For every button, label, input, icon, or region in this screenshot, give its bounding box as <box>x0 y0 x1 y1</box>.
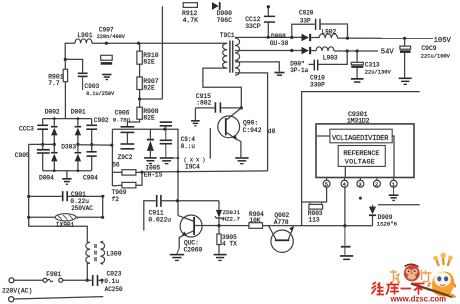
pin 2 of IC U901 <box>376 178 378 181</box>
svg-text:0.78n: 0.78n <box>113 116 130 123</box>
svg-text:GU-38: GU-38 <box>270 40 289 47</box>
capacitor C904 symbol <box>87 151 97 153</box>
capacitor pin4 bypass <box>344 226 346 246</box>
capacitor C914 lead <box>209 128 211 159</box>
node junction bridge top-left <box>53 117 56 120</box>
node junction Q901 collector <box>240 106 243 109</box>
svg-text:C901: C901 <box>71 191 86 198</box>
svg-text:54V: 54V <box>381 49 395 57</box>
ground below C907 <box>102 74 111 76</box>
svg-text:www.dzsc.com: www.dzsc.com <box>390 295 447 304</box>
capacitor C911 <box>144 201 156 231</box>
svg-text:0.1u/250V: 0.1u/250V <box>86 91 115 97</box>
svg-text:EH-1S: EH-1S <box>144 172 163 179</box>
wire startup vertical R912 feed <box>161 6 163 99</box>
resistor R909 <box>112 184 122 187</box>
node junction R902 right <box>140 171 143 174</box>
transformer T901 secondary winding <box>235 38 240 75</box>
svg-text:C313: C313 <box>365 61 380 68</box>
ground bridge center <box>66 171 68 178</box>
svg-text:22u/130V: 22u/130V <box>365 70 392 76</box>
node junction R908 top <box>138 97 141 100</box>
svg-text:33CP: 33CP <box>245 23 261 30</box>
svg-text:0.022u: 0.022u <box>148 216 171 223</box>
wire secondary tap2 <box>235 50 240 52</box>
IC voltage divider box <box>330 129 392 143</box>
svg-text:0.22u: 0.22u <box>70 198 89 205</box>
svg-text:Z9C2: Z9C2 <box>118 154 133 161</box>
node junction C901 right <box>101 195 104 198</box>
wire left control bus <box>111 129 113 186</box>
svg-text:CCC3: CCC3 <box>19 126 34 133</box>
ground Q905 <box>170 254 184 256</box>
wire pin4 down <box>344 187 346 226</box>
svg-text:C905: C905 <box>15 152 30 159</box>
pin 1 of IC U901 <box>393 178 395 181</box>
node junction C920 left <box>290 36 293 39</box>
node junction C903 tap <box>64 58 67 61</box>
wire secondary tap4 down-feed <box>235 73 268 171</box>
svg-text:1M31D2: 1M31D2 <box>347 118 370 126</box>
ground pin1 <box>389 194 399 196</box>
node junction after L902 <box>346 37 349 40</box>
wire 105V rail <box>240 36 302 38</box>
node junction IX901 right <box>101 216 104 219</box>
svg-text:C9C9: C9C9 <box>421 45 436 52</box>
watermark logo <box>372 253 456 304</box>
svg-text:F901: F901 <box>46 271 61 278</box>
svg-text:4.7K: 4.7K <box>183 17 199 24</box>
svg-text:f2: f2 <box>112 196 120 203</box>
node junction below pin3 <box>359 197 362 200</box>
svg-text:C2060: C2060 <box>184 246 203 253</box>
zener diode ZD901 <box>218 201 220 210</box>
svg-text:82E: 82E <box>143 85 155 92</box>
wire R901 top <box>64 59 66 69</box>
line filter IX901 <box>29 216 56 218</box>
svg-text:d0: d0 <box>268 128 276 135</box>
diode D903 symbol <box>75 152 82 154</box>
svg-text:L902: L902 <box>321 28 336 35</box>
svg-text:IX901: IX901 <box>56 222 75 229</box>
svg-text:REFERENCE: REFERENCE <box>343 150 379 158</box>
wire R908 bottom jog <box>127 119 139 126</box>
transistor Q901 <box>218 116 240 138</box>
capacitor small pair upper <box>160 121 172 123</box>
svg-text:C910: C910 <box>310 74 325 81</box>
node junction control top <box>163 128 166 131</box>
svg-text:1S20"6: 1S20"6 <box>377 221 397 228</box>
watermark mascot <box>432 271 454 296</box>
svg-text:10K: 10K <box>249 217 260 224</box>
svg-text:2: 2 <box>375 182 378 188</box>
wire control top <box>112 128 178 130</box>
resistor R905 <box>218 226 220 234</box>
node junction CC12 top <box>267 5 270 8</box>
wire top rail left corner <box>65 43 75 59</box>
svg-text:C902: C902 <box>94 117 109 124</box>
wire feedback loop left-top <box>302 92 420 226</box>
node junction D907 tap <box>346 49 349 52</box>
node junction 54V-a <box>290 49 293 52</box>
wire L902 out <box>338 37 434 39</box>
ground D905 <box>144 157 157 159</box>
wire C903 branch <box>65 59 82 72</box>
wire primary bottom path <box>203 68 241 108</box>
capacitor column left outer bottom <box>37 149 50 151</box>
svg-text:706C: 706C <box>217 17 233 24</box>
wire left ac bus <box>29 144 88 242</box>
svg-text:C911: C911 <box>149 209 164 216</box>
svg-text:33P: 33P <box>300 17 311 24</box>
node junction C913 tap <box>356 49 359 52</box>
node junction pin4-base rail <box>343 224 346 227</box>
wire Q901 emitter <box>237 140 241 158</box>
svg-text:D001: D001 <box>71 109 86 116</box>
diode D902 symbol <box>53 119 55 126</box>
wire top rail to transformer <box>92 42 225 44</box>
svg-text:L309: L309 <box>106 251 122 258</box>
svg-text:C9:4: C9:4 <box>181 136 196 143</box>
svg-text:AC250: AC250 <box>105 286 123 293</box>
wire 54V rail <box>240 50 302 52</box>
svg-text:I005: I005 <box>145 165 160 172</box>
wire C901-IX901 right link <box>102 196 104 217</box>
svg-text:C904: C904 <box>83 174 98 181</box>
svg-text::802: :802 <box>196 99 211 106</box>
node junction C909 tap <box>403 37 406 40</box>
wire R910-R907 <box>139 64 141 77</box>
IC U901 outer box <box>316 124 414 178</box>
wire bridge bottom <box>43 170 92 172</box>
svg-text:C023: C023 <box>107 270 122 277</box>
capacitor C906 symbol <box>121 126 135 128</box>
svg-text:82E: 82E <box>143 115 155 122</box>
wire vertical opto feed <box>177 129 179 216</box>
svg-text:D004: D004 <box>39 174 54 181</box>
svg-text:0.:u: 0.:u <box>181 143 196 150</box>
transistor Q905 <box>180 215 202 237</box>
node junction choke-fuse <box>86 279 89 282</box>
ground C913 <box>351 78 364 80</box>
node junction secondary top <box>267 36 270 39</box>
pin 4 of IC U901 <box>344 178 346 181</box>
svg-text:22Cu/100V: 22Cu/100V <box>421 54 451 60</box>
wire ac neutral <box>9 297 14 302</box>
resistor R912 <box>183 3 197 8</box>
svg-text:C920: C920 <box>299 9 314 16</box>
capacitor C923 <box>87 279 92 281</box>
diode D906 <box>302 47 309 54</box>
wire bridge ac feed right <box>78 144 113 146</box>
ground pin4 bypass <box>340 255 353 257</box>
svg-text:220V(AC): 220V(AC) <box>2 287 32 294</box>
transformer T901 primary winding <box>223 43 228 68</box>
svg-text:T9C1: T9C1 <box>220 32 235 39</box>
node junction IX901 left <box>27 216 30 219</box>
wire pin5 to R903 <box>302 187 327 202</box>
svg-text:220n/400V: 220n/400V <box>97 34 126 40</box>
transformer T901 core <box>229 41 231 73</box>
svg-text:T909: T909 <box>112 189 127 196</box>
ground capacitor pair <box>160 157 174 159</box>
svg-text:D303: D303 <box>61 144 76 151</box>
svg-text:L903: L903 <box>323 55 338 62</box>
capacitor C915 symbol <box>195 107 214 109</box>
wire R901 bottom to bridge <box>64 82 66 119</box>
node junction mid rail x178 <box>177 170 180 173</box>
svg-text:C907: C907 <box>99 26 114 33</box>
capacitor C909 <box>404 38 406 46</box>
wire pin1 to ground <box>393 187 395 194</box>
svg-text:CC12: CC12 <box>245 16 261 23</box>
svg-text:56: 56 <box>112 162 120 169</box>
ground R905 <box>214 254 227 256</box>
svg-text:VOLTAGE: VOLTAGE <box>345 158 375 166</box>
capacitor C907 symbol <box>101 55 113 60</box>
svg-text:0.1u: 0.1u <box>104 278 119 285</box>
svg-text:250VAC: 250VAC <box>71 205 93 212</box>
capacitor C903 symbol <box>78 73 88 75</box>
wire to L903 <box>311 50 316 52</box>
resistor R903 <box>309 202 311 204</box>
transistor Q902 <box>271 230 293 252</box>
node junction bridge ac right-inner <box>76 143 79 146</box>
ground C909 <box>399 78 412 80</box>
resistor R904 <box>249 223 263 229</box>
inductor L902 <box>319 34 337 38</box>
svg-text:3: 3 <box>359 182 362 188</box>
capacitor CC12 <box>267 7 269 16</box>
svg-text:VCLIAGEDIVIDER: VCLIAGEDIVIDER <box>332 135 389 143</box>
wire L903 out <box>334 50 378 52</box>
node junction bridge ac left-outer <box>41 143 44 146</box>
svg-text:D002: D002 <box>45 109 60 116</box>
diode D901 symbol <box>77 119 79 126</box>
wire bridge ac feed left <box>29 143 55 145</box>
node junction C901 left <box>27 195 30 198</box>
wire bridge top <box>43 118 92 120</box>
capacitor column left outer top <box>42 119 44 125</box>
wire VD box right lead <box>392 136 394 178</box>
svg-text:R912: R912 <box>182 10 198 17</box>
fuse F901 <box>9 278 14 283</box>
node junction C911 right <box>176 199 179 202</box>
node junction bridge top-right <box>77 117 80 120</box>
wire feedback mid rail <box>142 171 268 172</box>
inductor L903 <box>316 47 334 51</box>
resistor R910 <box>139 43 141 51</box>
pin 5 of IC U901 <box>326 178 328 181</box>
watermark brand text wei-ku-yi-xia <box>372 282 425 295</box>
svg-text:105V: 105V <box>434 37 452 45</box>
svg-text:82E: 82E <box>143 59 155 66</box>
capacitor C910 branch <box>318 51 347 64</box>
diode D904 symbol <box>51 152 58 154</box>
wire to startup branch <box>140 98 163 100</box>
svg-text:D900: D900 <box>217 10 233 17</box>
svg-text:C906: C906 <box>115 109 130 116</box>
wire REF box lead <box>344 166 346 177</box>
ground secondary tap <box>275 72 285 74</box>
resistor R907 <box>137 77 142 90</box>
ground C915 left <box>194 108 196 120</box>
capacitor C920 bypass loop <box>292 24 315 37</box>
wire R907 bottom <box>139 90 141 100</box>
svg-text:A778: A778 <box>274 219 289 226</box>
svg-text:Q90:: Q90: <box>243 119 258 126</box>
IC reference voltage box <box>338 146 385 167</box>
inductor L901 <box>75 39 92 43</box>
diode D908 <box>302 34 309 41</box>
svg-text:C903: C903 <box>84 83 99 90</box>
svg-text:HZ2.7: HZ2.7 <box>223 216 241 223</box>
node junction ac right bus <box>110 144 113 147</box>
capacitor C913 <box>356 51 358 62</box>
resistor R908 <box>139 99 141 107</box>
node junction zener-base <box>217 224 220 227</box>
ground Q901 emitter <box>235 157 248 159</box>
node junction bridge bottom-right <box>77 169 80 172</box>
svg-text:L901: L901 <box>77 32 93 39</box>
svg-text:330P: 330P <box>310 81 325 88</box>
wire to L902 <box>311 37 319 39</box>
svg-text:7.7: 7.7 <box>48 80 60 87</box>
node junction bridge bottom-left <box>53 169 56 172</box>
diode D900 <box>212 2 219 10</box>
svg-text:113: 113 <box>308 216 319 223</box>
svg-text:C:942: C:942 <box>243 127 262 134</box>
wire D909 top rail <box>378 204 420 206</box>
node junction x178-y158 <box>177 157 180 160</box>
capacitor C901 <box>29 195 62 197</box>
svg-text:3P-1a: 3P-1a <box>290 67 308 74</box>
svg-text:I9C4: I9C4 <box>185 164 200 171</box>
inductor L909 choke <box>86 242 90 263</box>
diode D909 <box>372 205 374 207</box>
node junction R910 tap <box>137 42 140 45</box>
wire secondary tap1 <box>235 36 240 38</box>
capacitor C902 symbol <box>91 119 93 125</box>
svg-text:4 TX: 4 TX <box>222 240 237 247</box>
pin 3 of IC U901 <box>359 178 361 181</box>
node junction C907 tap <box>105 42 108 45</box>
diode D905 symbol <box>149 129 151 138</box>
node junction bridge ac right-outer <box>90 143 93 146</box>
capacitor small pair lower <box>165 129 167 139</box>
wire VD box left lead <box>316 135 330 137</box>
wire base drive rail <box>195 225 373 227</box>
node junction bridge ac left-inner <box>53 143 56 146</box>
wire secondary tap3 to ground <box>235 62 279 72</box>
